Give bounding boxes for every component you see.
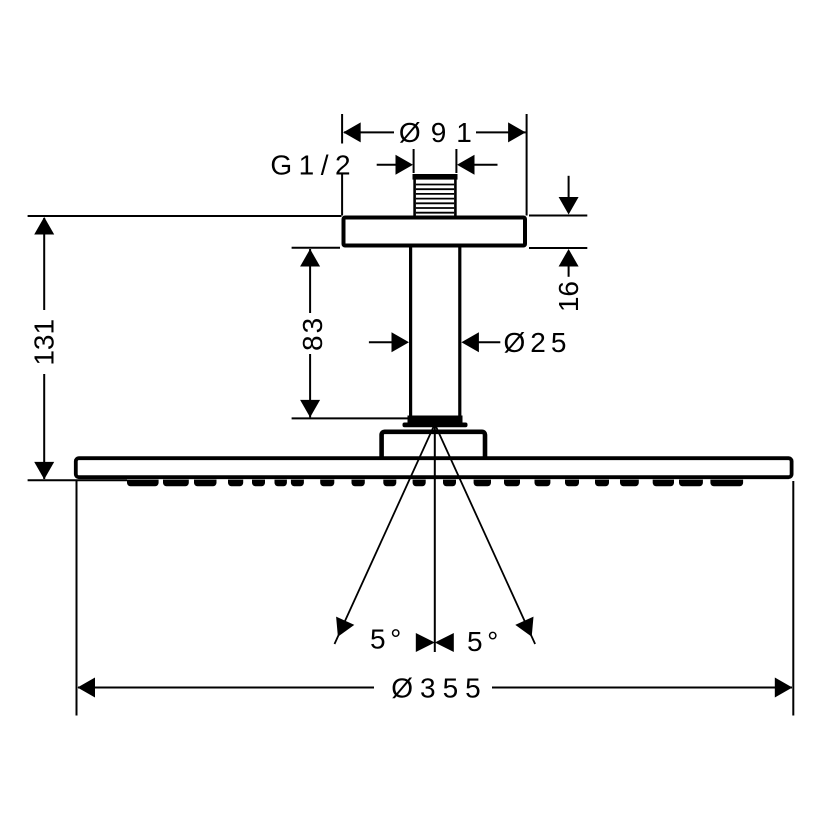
svg-text:Ø91: Ø91	[399, 117, 482, 148]
escutcheon flange plate	[344, 218, 526, 246]
dimension 16	[529, 176, 587, 277]
spray cone centerline	[434, 424, 436, 652]
ceiling connector pipe	[411, 248, 460, 417]
dimension O355	[77, 481, 794, 716]
svg-text:Ø25: Ø25	[504, 327, 572, 358]
threaded connector G1/2	[413, 174, 458, 216]
svg-text:G1/2: G1/2	[270, 150, 357, 181]
mounting bracket	[382, 432, 485, 460]
angle arrows 5 deg bowtie	[416, 633, 454, 652]
svg-text:131: 131	[28, 319, 59, 366]
svg-text:83: 83	[297, 316, 328, 351]
svg-text:16: 16	[553, 281, 584, 312]
spray nozzle row	[127, 480, 743, 487]
dimension 131	[28, 216, 342, 480]
dimension O91	[342, 114, 526, 216]
svg-text:5°: 5°	[370, 624, 406, 655]
spray cone right line	[435, 424, 535, 644]
dimension 83	[292, 248, 408, 419]
dimension O25	[369, 341, 500, 343]
ball joint nut	[403, 416, 468, 428]
dimension G1/2	[377, 149, 498, 173]
spray cone left line	[335, 424, 435, 644]
svg-text:Ø355: Ø355	[391, 673, 488, 704]
shower head plate	[76, 458, 792, 477]
svg-text:5°: 5°	[467, 626, 503, 657]
